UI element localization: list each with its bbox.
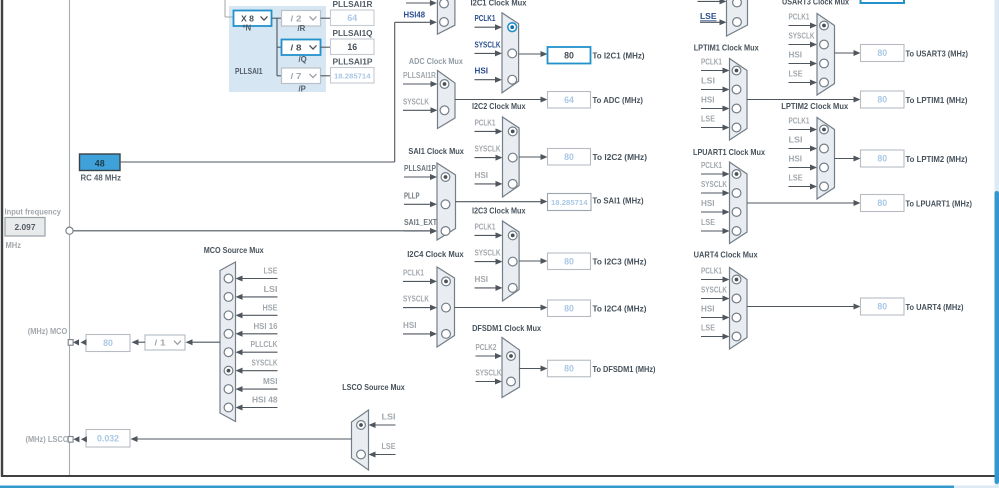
svg-text:HSE: HSE [263,303,278,312]
svg-text:SYSCLK: SYSCLK [789,32,815,41]
svg-text:I2C4 Clock Mux: I2C4 Clock Mux [407,249,464,259]
svg-text:I2C1 Clock Mux: I2C1 Clock Mux [471,0,527,8]
svg-text:80: 80 [877,154,887,164]
svg-text:0.032: 0.032 [97,433,119,443]
svg-text:*N: *N [243,24,252,33]
svg-text:LSE: LSE [789,70,803,79]
svg-text:18.285714: 18.285714 [334,71,371,80]
svg-text:PCLK1: PCLK1 [701,161,723,170]
svg-text:PLLSAI1P: PLLSAI1P [404,164,436,173]
svg-text:SAI1_EXT: SAI1_EXT [404,218,437,227]
svg-text:80: 80 [877,95,887,105]
svg-text:HSI: HSI [403,321,417,330]
svg-text:To UART4 (MHz): To UART4 (MHz) [906,302,964,312]
svg-text:LSE: LSE [701,324,715,333]
svg-text:LSCO Source Mux: LSCO Source Mux [342,382,405,392]
svg-text:48: 48 [95,158,105,168]
svg-text:80: 80 [564,256,574,266]
svg-text:80: 80 [877,198,887,208]
svg-text:80: 80 [564,50,574,60]
svg-text:LSE: LSE [700,12,717,21]
svg-text:LSE: LSE [701,218,715,227]
svg-text:HSI: HSI [701,305,715,314]
svg-text:To USART3 (MHz): To USART3 (MHz) [906,48,969,58]
svg-text:UART4 Clock Mux: UART4 Clock Mux [694,250,758,260]
svg-text:PCLK1: PCLK1 [403,268,425,277]
svg-text:SYSCLK: SYSCLK [252,359,278,368]
svg-text:To DFSDM1 (MHz): To DFSDM1 (MHz) [593,364,656,374]
svg-text:64: 64 [564,95,574,105]
svg-text:HSI: HSI [789,155,803,164]
svg-text:LSI: LSI [264,285,278,294]
svg-text:80: 80 [877,48,887,58]
svg-text:To LPUART1 (MHz): To LPUART1 (MHz) [906,198,973,208]
svg-text:To LPTIM1 (MHz): To LPTIM1 (MHz) [906,95,968,105]
svg-text:To I2C1 (MHz): To I2C1 (MHz) [593,50,645,60]
svg-text:16: 16 [347,42,357,52]
svg-text:/Q: /Q [299,55,307,64]
svg-text:To I2C4 (MHz): To I2C4 (MHz) [593,303,647,313]
svg-text:PLLCLK: PLLCLK [251,340,278,349]
svg-text:80: 80 [564,364,574,374]
svg-text:/P: /P [299,85,306,94]
svg-text:ADC Clock Mux: ADC Clock Mux [409,56,463,66]
svg-text:LSI: LSI [382,413,396,422]
svg-text:HSI: HSI [475,67,489,76]
svg-text:I2C3 Clock Mux: I2C3 Clock Mux [472,206,526,216]
svg-text:2.097: 2.097 [15,222,36,232]
svg-text:SYSCLK: SYSCLK [403,295,429,304]
svg-text:18.285714: 18.285714 [551,198,588,207]
svg-text:MSI: MSI [263,377,278,386]
svg-text:PCLK1: PCLK1 [701,58,723,67]
svg-text:SYSCLK: SYSCLK [475,249,501,258]
svg-text:USART3 Clock Mux: USART3 Clock Mux [782,0,849,7]
svg-text:80: 80 [877,302,887,312]
svg-text:PCLK1: PCLK1 [789,13,811,22]
svg-text:LSE: LSE [382,442,396,451]
svg-text:LPTIM2 Clock Mux: LPTIM2 Clock Mux [781,101,848,111]
svg-text:LSE: LSE [701,115,715,124]
svg-text:SYSCLK: SYSCLK [476,369,502,378]
svg-text:LPTIM1 Clock Mux: LPTIM1 Clock Mux [694,43,759,53]
svg-text:HSI 16: HSI 16 [254,322,279,331]
svg-text:/ 7: / 7 [291,72,303,81]
svg-text:LPUART1 Clock Mux: LPUART1 Clock Mux [693,147,765,157]
svg-text:HSI: HSI [475,171,489,180]
svg-text:80: 80 [564,303,574,313]
svg-text:80: 80 [564,152,574,162]
svg-text:HSI: HSI [789,51,803,60]
svg-text:LSE: LSE [264,267,278,276]
svg-text:MCO Source Mux: MCO Source Mux [204,245,264,255]
svg-text:SYSCLK: SYSCLK [475,40,501,49]
svg-text:RC 48 MHz: RC 48 MHz [81,173,122,183]
svg-text:PLLSAI1Q: PLLSAI1Q [333,29,373,38]
svg-text:PCLK1: PCLK1 [475,14,497,23]
svg-text:/ 8: / 8 [291,43,303,52]
svg-text:PCLK1: PCLK1 [789,117,811,126]
svg-text:HSI: HSI [475,275,489,284]
svg-text:To SAI1 (MHz): To SAI1 (MHz) [593,195,644,205]
svg-text:To ADC (MHz): To ADC (MHz) [593,95,644,105]
svg-text:X 8: X 8 [241,14,255,23]
svg-text:DFSDM1 Clock Mux: DFSDM1 Clock Mux [472,323,541,333]
svg-text:PLLSAI1R: PLLSAI1R [403,71,436,80]
svg-text:64: 64 [347,13,357,23]
svg-text:HSI: HSI [701,199,715,208]
svg-text:LSI: LSI [789,136,803,145]
svg-text:PCLK1: PCLK1 [475,118,497,127]
svg-text:SYSCLK: SYSCLK [475,145,501,154]
svg-text:HSI 48: HSI 48 [252,396,278,405]
svg-text:To I2C2 (MHz): To I2C2 (MHz) [593,152,648,162]
svg-text:PLLSAI1: PLLSAI1 [235,67,263,76]
svg-text:To LPTIM2 (MHz): To LPTIM2 (MHz) [906,154,968,164]
svg-text:I2C2 Clock Mux: I2C2 Clock Mux [472,101,526,111]
svg-text:Input frequency: Input frequency [5,207,62,217]
svg-text:/R: /R [298,24,306,33]
svg-text:LSE: LSE [789,174,803,183]
svg-text:SYSCLK: SYSCLK [701,180,727,189]
svg-text:To I2C3 (MHz): To I2C3 (MHz) [593,256,647,266]
svg-text:HSI: HSI [701,96,715,105]
svg-text:SYSCLK: SYSCLK [403,97,429,106]
svg-text:PCLK1: PCLK1 [475,222,497,231]
svg-text:PCLK1: PCLK1 [701,267,723,276]
svg-text:HSI48: HSI48 [404,11,426,20]
svg-text:/ 1: / 1 [155,339,167,348]
svg-text:(MHz) MCO: (MHz) MCO [28,326,68,336]
svg-text:LSI: LSI [701,77,715,86]
svg-text:/ 2: / 2 [291,14,303,23]
svg-text:SYSCLK: SYSCLK [701,286,727,295]
svg-text:SAI1 Clock Mux: SAI1 Clock Mux [408,146,464,156]
svg-text:80: 80 [103,338,113,348]
svg-text:PCLK2: PCLK2 [476,343,498,352]
svg-text:(MHz) LSCO: (MHz) LSCO [26,434,69,444]
svg-text:PLLP: PLLP [404,191,420,200]
svg-text:PLLSAI1P: PLLSAI1P [333,58,374,67]
svg-text:PLLSAI1R: PLLSAI1R [333,0,373,9]
svg-text:MHz: MHz [6,240,22,250]
